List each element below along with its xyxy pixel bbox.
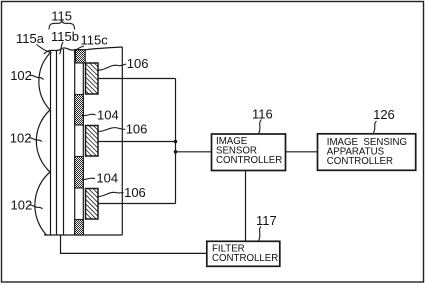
lens 102 top xyxy=(39,53,50,110)
leader 104 #1 xyxy=(82,114,96,115)
filter segment top (checker) xyxy=(76,50,86,63)
bus vertical xyxy=(175,79,177,204)
lens 102 middle xyxy=(36,110,50,172)
svg-text:CONTROLLER: CONTROLLER xyxy=(216,155,282,166)
box U116 image sensor controller xyxy=(212,134,286,171)
wire sensor2 to bus xyxy=(98,141,176,143)
svg-text:115a: 115a xyxy=(16,31,45,46)
svg-text:115c: 115c xyxy=(81,32,109,47)
leader 104 #2 xyxy=(82,178,95,179)
layer line 115b left xyxy=(56,50,58,235)
brace for 115 xyxy=(49,21,75,30)
leader 115b xyxy=(60,42,64,54)
lens 102 bottom xyxy=(35,172,50,235)
svg-text:106: 106 xyxy=(127,56,149,71)
structure bottom edge xyxy=(44,234,122,236)
wire image sensor controller to filter controller xyxy=(245,171,247,242)
leader 116 xyxy=(259,120,262,134)
leader 106 #2 xyxy=(97,128,125,132)
svg-text:CONTROLLER: CONTROLLER xyxy=(327,156,393,167)
box U117 filter controller xyxy=(207,241,280,266)
svg-text:102: 102 xyxy=(10,68,32,83)
leader 106 #1 xyxy=(98,64,127,70)
structure top wavy edge xyxy=(44,47,122,54)
layer line 115c left xyxy=(63,49,65,235)
svg-text:106: 106 xyxy=(124,185,146,200)
filter segment 104 #2 (checker) xyxy=(75,157,84,189)
box U126 image sensing apparatus controller xyxy=(318,134,416,171)
wire image sensor controller to image sensing apparatus controller xyxy=(286,151,318,153)
wire sensor1 to bus xyxy=(98,78,176,80)
junction dot wire2/bus xyxy=(174,140,178,144)
sensor 106 #3 (hatched) xyxy=(86,189,99,220)
sensor 106 #1 (hatched) xyxy=(86,63,99,94)
junction dot controller-wire/bus xyxy=(174,150,178,154)
svg-text:CONTROLLER: CONTROLLER xyxy=(212,253,278,264)
leader 102 #1 xyxy=(30,75,44,79)
filter segment 104 #1 (checker) xyxy=(75,95,84,126)
substrate 115c right edge xyxy=(121,47,123,235)
leader 126 xyxy=(373,121,377,133)
leader 115a xyxy=(37,45,52,54)
filter column right border xyxy=(82,63,84,235)
svg-text:104: 104 xyxy=(96,170,118,185)
leader 102 #3 xyxy=(29,205,43,209)
svg-text:104: 104 xyxy=(97,107,119,122)
filter column left border xyxy=(74,50,76,235)
filter segment bottom (checker) xyxy=(75,220,84,236)
svg-text:117: 117 xyxy=(256,213,277,228)
layer line 115a left xyxy=(50,51,52,235)
svg-text:115b: 115b xyxy=(51,29,79,44)
wire lens assembly to filter controller xyxy=(61,235,207,253)
wire sensor3 to bus xyxy=(98,203,176,205)
svg-text:116: 116 xyxy=(252,106,273,121)
svg-text:106: 106 xyxy=(126,121,148,136)
leader 117 xyxy=(259,227,262,241)
leader 106 #3 xyxy=(97,192,123,196)
sensor 106 #2 (hatched) xyxy=(86,126,99,157)
svg-text:126: 126 xyxy=(373,107,395,122)
leader 102 #2 xyxy=(28,138,42,142)
leader 115c xyxy=(74,46,84,52)
wire bus to image sensor controller xyxy=(176,151,212,153)
